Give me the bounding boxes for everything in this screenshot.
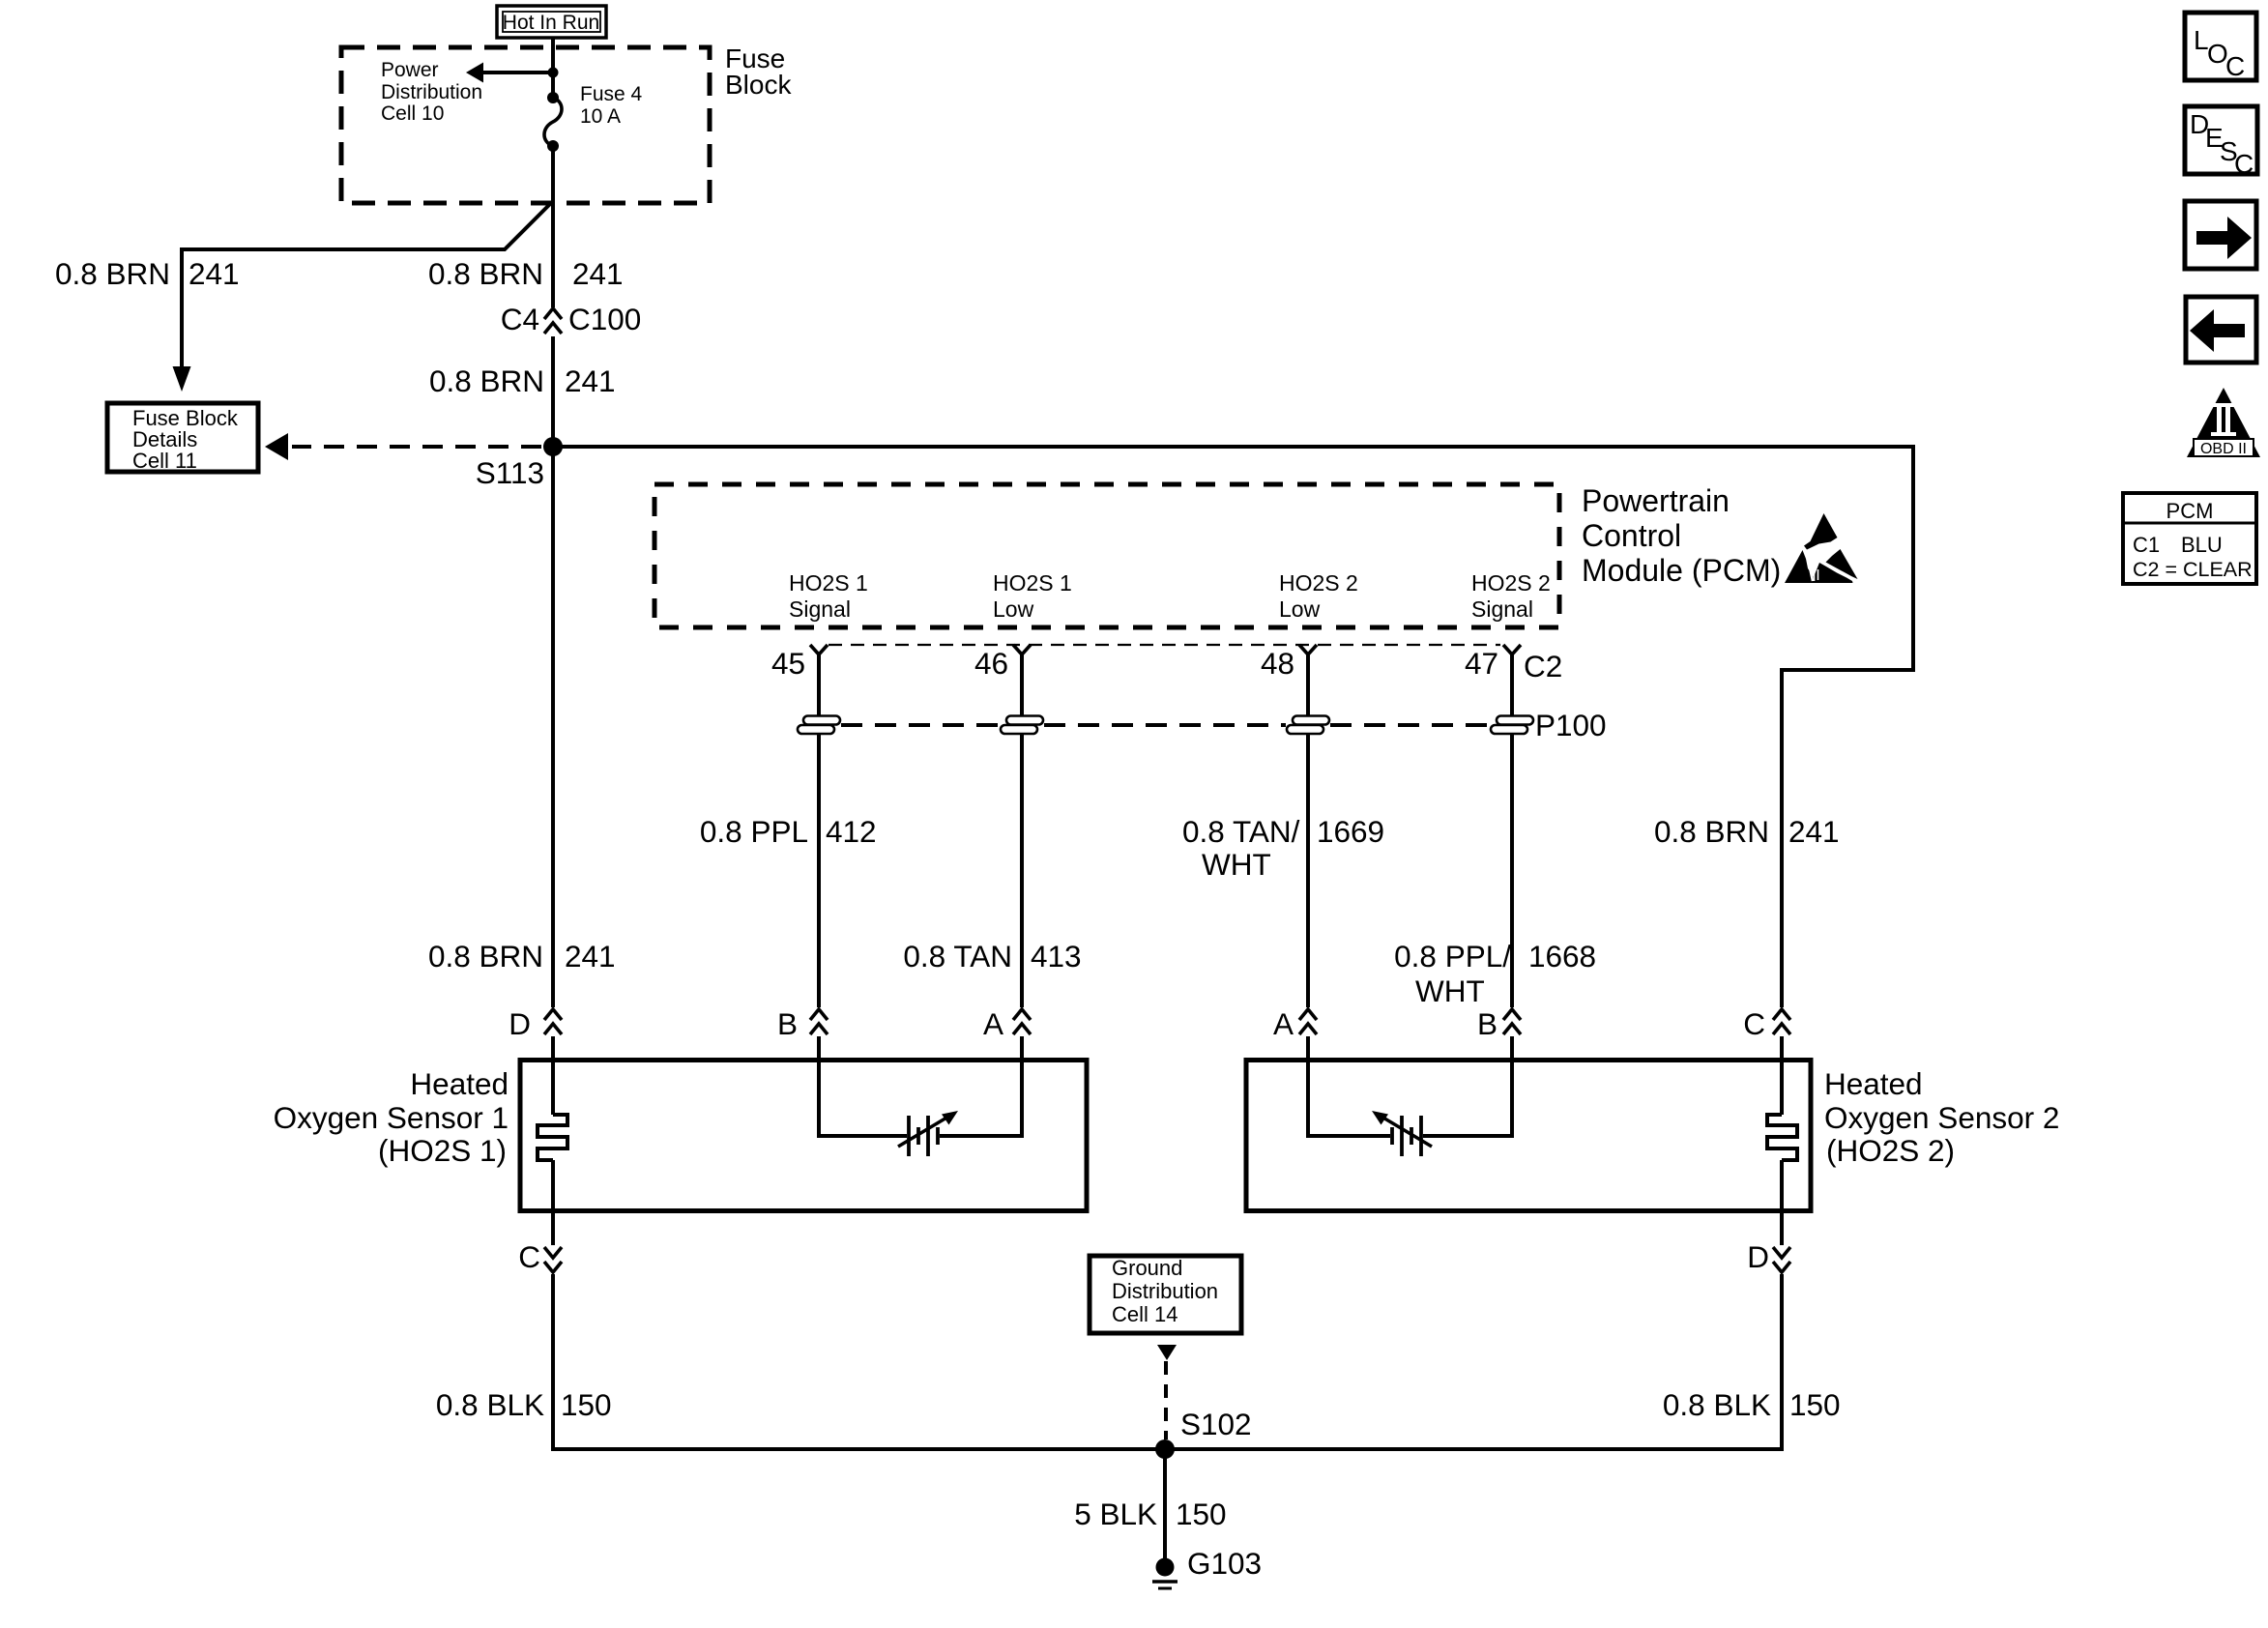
svg-text:Ground: Ground [1112,1256,1182,1280]
wire S113 to right side [553,447,1913,1007]
pin B chevron HO2S1 [777,1006,828,1041]
wire B into HO2S1 [819,1036,907,1136]
sensor cell HO2S1 [898,1111,958,1156]
wire from Hot In Run to fuse [551,38,555,96]
svg-text:G103: G103 [1187,1546,1262,1581]
svg-text:0.8 PPL/: 0.8 PPL/ [1394,939,1511,974]
label 0.8 PPL/WHT 1668 [1394,939,1596,1008]
svg-text:Distribution: Distribution [1112,1279,1218,1303]
svg-text:C2: C2 [1524,649,1562,683]
svg-text:C2 = CLEAR: C2 = CLEAR [2133,558,2253,581]
svg-text:0.8 BRN: 0.8 BRN [1654,814,1769,849]
svg-text:0.8 BLK: 0.8 BLK [436,1387,544,1422]
wire branch to left [182,203,551,366]
svg-text:1668: 1668 [1528,939,1596,974]
svg-text:(HO2S 1): (HO2S 1) [378,1133,507,1168]
fuse F4 10A [544,92,562,152]
svg-text:47: 47 [1465,646,1498,681]
svg-text:0.8 BRN: 0.8 BRN [429,363,544,398]
svg-text:Control: Control [1582,518,1681,553]
splice S113 [543,437,563,456]
label 0.8 BRN 241 left [55,256,240,291]
label HO2S 1 Signal pin 45 [789,570,868,622]
box HO2S2 [1246,1061,1811,1211]
svg-text:0.8 BRN: 0.8 BRN [428,256,543,291]
svg-text:HO2S 2: HO2S 2 [1279,570,1358,596]
svg-text:PCM: PCM [2166,499,2214,523]
svg-text:Heated: Heated [410,1066,509,1101]
svg-text:Low: Low [1279,596,1321,622]
node Hot In Run box [497,6,606,38]
wire A into HO2S1 [940,1036,1022,1136]
label Fuse Block [725,44,792,100]
label 0.8 BRN 241 right [1654,814,1840,849]
label 0.8 BLK 150 right [1663,1387,1841,1422]
icon LOC box [2185,13,2256,81]
wire D into HO2S1 [551,1036,555,1115]
svg-text:Power: Power [381,59,439,81]
label 5 BLK 150 [1074,1497,1226,1531]
svg-text:D: D [509,1006,531,1041]
svg-text:BLU: BLU [2181,533,2223,557]
svg-text:48: 48 [1261,646,1294,681]
sensor cell HO2S2 [1372,1111,1432,1156]
svg-text:0.8 BRN: 0.8 BRN [428,939,543,974]
svg-text:0.8 BLK: 0.8 BLK [1663,1387,1771,1422]
svg-text:C1: C1 [2133,533,2160,557]
svg-text:10 A: 10 A [580,105,621,128]
wire C below HO2S1 [551,1160,555,1245]
heater element HO2S1 [538,1115,567,1160]
icon right arrow box [2185,201,2256,269]
svg-text:241: 241 [565,363,616,398]
svg-text:241: 241 [1788,814,1840,849]
connector C2 fork pin 47 [1503,645,1521,654]
svg-text:WHT: WHT [1202,847,1271,882]
svg-text:0.8 TAN/: 0.8 TAN/ [1182,814,1300,849]
legend PCM connector colors [2123,493,2256,584]
ground G103 [1152,1558,1178,1589]
wire pin 46 [1020,654,1024,1007]
svg-text:150: 150 [1176,1497,1227,1531]
wire dashed arrow S113 to Fuse Block Details [292,445,541,449]
label 0.8 TAN 413 [903,939,1081,974]
label 0.8 BRN 241 above S113 [429,363,616,398]
connector P100 dashed line [841,723,1490,727]
svg-text:Cell 10: Cell 10 [381,102,444,125]
wire D to ground rail [1780,1274,1784,1451]
svg-text:413: 413 [1031,939,1082,974]
svg-text:45: 45 [771,646,805,681]
label 0.8 BRN 241 upper middle [428,256,624,291]
svg-text:Fuse 4: Fuse 4 [580,83,643,105]
pin D chevron down [1747,1239,1790,1274]
wire C into HO2S2 [1780,1036,1784,1115]
svg-text:Powertrain: Powertrain [1582,483,1730,518]
icon left arrow box [2186,297,2256,363]
svg-text:Heated: Heated [1824,1066,1923,1101]
pin A chevron HO2S1 [983,1006,1031,1041]
PCM dashed box [654,484,1559,627]
svg-text:S113: S113 [476,455,544,490]
wire pin 45 [817,654,821,1007]
label HO2S 1 Low pin 46 [993,570,1072,622]
svg-text:150: 150 [561,1387,612,1422]
svg-text:HO2S 2: HO2S 2 [1471,570,1551,596]
svg-text:241: 241 [565,939,616,974]
wire pin 48 [1306,654,1310,1007]
label Powertrain Control Module (PCM) [1582,483,1781,588]
svg-text:B: B [777,1006,798,1041]
pin C chevron HO2S2 [1743,1006,1790,1041]
pin B chevron HO2S2 [1477,1006,1521,1041]
wire C to ground rail [551,1274,555,1451]
svg-text:WHT: WHT [1415,974,1485,1008]
svg-text:Signal: Signal [1471,596,1533,622]
svg-text:A: A [1273,1006,1294,1041]
svg-text:0.8 BRN: 0.8 BRN [55,256,170,291]
connector P100 grommet 4 [1491,716,1533,735]
svg-text:0.8 TAN: 0.8 TAN [903,939,1012,974]
svg-text:1669: 1669 [1317,814,1384,849]
connector C2 dashed line [829,644,1500,646]
label 0.8 BRN 241 above D [428,939,616,974]
label 0.8 PPL 412 [700,814,877,849]
svg-text:B: B [1477,1006,1497,1041]
svg-text:HO2S 1: HO2S 1 [993,570,1072,596]
heater element HO2S2 [1767,1115,1797,1160]
svg-text:412: 412 [826,814,877,849]
svg-text:0.8 PPL: 0.8 PPL [700,814,808,849]
svg-text:Cell 14: Cell 14 [1112,1302,1178,1326]
svg-text:46: 46 [974,646,1008,681]
connector P100 grommet 3 [1287,716,1329,735]
svg-text:Signal: Signal [789,596,851,622]
svg-text:Low: Low [993,596,1034,622]
svg-text:Oxygen Sensor 2: Oxygen Sensor 2 [1824,1100,2059,1135]
connector C2 fork pin 45 [810,645,828,654]
connector C2 fork pin 48 [1299,645,1317,654]
wire ground rail [553,1447,1782,1451]
svg-text:D: D [1747,1239,1769,1274]
wire dashed to S102 [1164,1361,1168,1439]
svg-text:C4: C4 [501,302,539,336]
connector C2 fork pin 46 [1013,645,1031,654]
label Heated Oxygen Sensor 2 [1824,1066,2059,1168]
icon OBD II triangle [2187,388,2260,457]
node Ground Distribution Cell 14 box [1090,1256,1241,1333]
svg-text:C: C [518,1239,540,1274]
svg-text:Distribution: Distribution [381,81,482,103]
svg-text:C100: C100 [568,302,641,336]
svg-text:Cell 11: Cell 11 [132,449,197,473]
wire arrow to Power Distribution [482,71,549,74]
svg-text:Oxygen Sensor 1: Oxygen Sensor 1 [274,1100,509,1135]
label Fuse 4 10 A [580,83,643,128]
svg-text:C: C [2234,149,2253,179]
svg-text:HO2S 1: HO2S 1 [789,570,868,596]
svg-text:Hot In Run: Hot In Run [503,12,599,34]
ESD symbol [1785,513,1858,583]
arrow from Ground Distribution [1157,1345,1177,1360]
connector C4 C100 [501,302,642,336]
svg-text:150: 150 [1789,1387,1841,1422]
svg-text:(HO2S 2): (HO2S 2) [1826,1133,1955,1168]
svg-text:A: A [983,1006,1003,1041]
box HO2S1 [520,1061,1087,1211]
svg-text:C: C [1743,1006,1765,1041]
wire pin 47 [1510,654,1514,1007]
label Heated Oxygen Sensor 1 [274,1066,509,1168]
wire B into HO2S2 [1423,1036,1512,1136]
connector P100 grommet 1 [798,716,840,735]
connector P100 grommet 2 [1001,716,1043,735]
wire D below HO2S2 [1780,1160,1784,1245]
label 0.8 BLK 150 left [436,1387,612,1422]
fuse block dashed box [341,47,710,203]
label Power Distribution Cell 10 [381,59,482,125]
svg-text:C: C [2225,51,2245,81]
pin D chevron [509,1006,562,1041]
node Fuse Block Details Cell 11 box [107,403,258,473]
svg-text:241: 241 [572,256,624,291]
wire main vertical below C100 [551,336,555,1007]
svg-text:Module (PCM): Module (PCM) [1582,553,1781,588]
wire A into HO2S2 [1308,1036,1390,1136]
label HO2S 2 Signal pin 47 [1471,570,1551,622]
svg-text:5 BLK: 5 BLK [1074,1497,1157,1531]
wire fuse output [551,146,555,307]
svg-text:Block: Block [725,70,792,100]
pin C chevron down [518,1239,562,1274]
junction dot in fuse block [548,68,559,78]
svg-text:OBD II: OBD II [2200,441,2247,457]
icon DESC box [2185,106,2257,179]
label 0.8 TAN/WHT 1669 [1182,814,1384,882]
label HO2S 2 Low pin 48 [1279,570,1358,622]
wire S102 to G103 [1163,1449,1167,1561]
splice S102 [1155,1439,1175,1459]
svg-text:241: 241 [189,256,240,291]
pin A chevron HO2S2 [1273,1006,1317,1041]
svg-text:P100: P100 [1535,708,1607,742]
svg-text:S102: S102 [1180,1407,1252,1441]
